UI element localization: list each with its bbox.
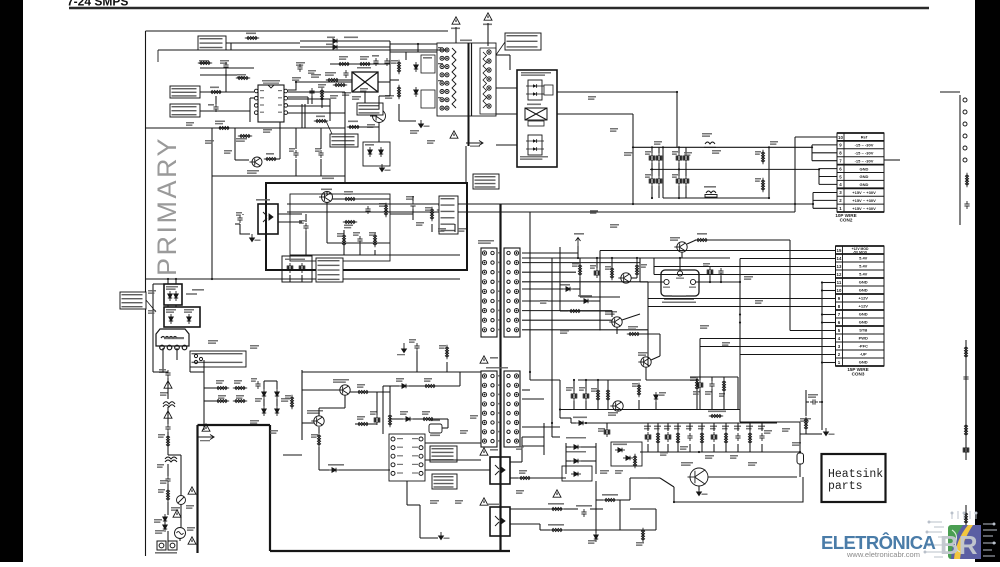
diode inside NA1 <box>368 147 372 157</box>
wire T2 tap <box>522 262 640 264</box>
value label <box>730 455 738 459</box>
wire <box>723 392 725 410</box>
svg-text:-5V MOD: -5V MOD <box>853 251 868 255</box>
wire <box>167 502 169 515</box>
wire <box>376 392 378 415</box>
value label <box>292 77 301 81</box>
diode GFB2 <box>563 287 573 291</box>
T1 secondary winding <box>487 50 491 108</box>
junction <box>211 278 213 280</box>
capacitor CAFB4 <box>357 236 362 244</box>
junction <box>679 257 681 259</box>
option label 9DCP-004053 <box>432 474 457 489</box>
chassis label <box>470 146 480 147</box>
CA5A0A label <box>800 418 811 422</box>
IC ICA1 left pins <box>254 89 258 114</box>
junction <box>662 146 664 148</box>
wire <box>653 258 655 275</box>
capacitor C5363 <box>810 399 818 404</box>
resistor SF20 <box>215 399 229 402</box>
wire <box>559 380 561 418</box>
wire <box>571 422 576 424</box>
wire <box>539 524 541 530</box>
wire long vertical B <box>551 258 553 437</box>
capacitor 16V 470UF <box>697 380 703 390</box>
wire <box>677 444 679 452</box>
T2 upper right pins <box>514 251 518 332</box>
wire to CON3 pin12 <box>654 274 836 276</box>
warning triangle <box>484 13 492 20</box>
inner box GAFB1 <box>290 194 390 261</box>
wire <box>326 202 328 243</box>
L5A301 label <box>708 411 726 413</box>
capacitor C1M5 470UF <box>604 427 610 437</box>
wire output lower rail <box>640 451 800 453</box>
diode DB1d <box>275 406 279 416</box>
wire <box>288 98 330 100</box>
value label <box>199 60 209 64</box>
wire <box>699 377 701 380</box>
bridge diode <box>168 291 172 301</box>
resistor RAC98 <box>437 208 451 211</box>
wire <box>235 223 240 225</box>
wire <box>573 288 580 290</box>
wire <box>300 46 390 48</box>
wire <box>320 128 322 149</box>
transistor QA1 label <box>367 124 375 128</box>
resistor R5C2 <box>722 379 725 393</box>
UF4007 label <box>396 378 404 382</box>
value label <box>660 452 668 456</box>
junction <box>175 278 177 280</box>
RFB5A01 label <box>548 503 564 505</box>
bridge diode <box>174 291 178 301</box>
transformer T1 outline <box>437 43 496 116</box>
wire <box>242 214 244 215</box>
wire <box>653 267 655 275</box>
wire <box>582 310 612 312</box>
wire <box>685 147 687 153</box>
resistor RA12 <box>358 62 372 65</box>
wire <box>200 110 250 112</box>
svg-text:PWD: PWD <box>859 336 868 341</box>
T2 lower left pins <box>482 374 486 443</box>
svg-text:-UP: -UP <box>860 352 867 357</box>
value label <box>186 122 194 126</box>
value label <box>654 141 662 145</box>
wire <box>739 354 741 356</box>
wire <box>343 245 345 255</box>
wire <box>678 169 680 176</box>
wire <box>581 460 596 462</box>
wire <box>301 104 303 128</box>
wire <box>651 169 653 176</box>
AC source SA1 <box>175 528 186 539</box>
wire <box>318 447 320 470</box>
T2 label <box>490 357 498 359</box>
wire <box>965 505 967 530</box>
option label 0452-001R60 <box>120 292 146 309</box>
diode tab <box>544 85 553 95</box>
wire <box>677 423 679 431</box>
value label <box>220 60 229 64</box>
wire <box>696 378 698 380</box>
wire lower rail <box>560 409 740 411</box>
wire <box>713 423 715 431</box>
wire to CON2 pin7 <box>812 160 837 162</box>
wire <box>749 444 751 452</box>
regulator pin OUT <box>690 279 695 284</box>
output filter resistor <box>748 431 751 445</box>
svg-text:11: 11 <box>837 280 842 285</box>
title underline <box>69 7 929 9</box>
transistor QA2 label <box>247 170 259 174</box>
wire <box>531 477 566 479</box>
wire rail B <box>650 168 769 170</box>
value label <box>311 74 321 78</box>
wire <box>162 348 164 372</box>
inductor LM2 <box>704 142 716 147</box>
connector CON2 10P <box>837 133 884 212</box>
wire <box>595 481 597 533</box>
svg-text:PRIMARY: PRIMARY <box>152 136 182 276</box>
wire rail C <box>663 197 769 199</box>
svg-text:GND: GND <box>860 174 869 179</box>
option label ICE3BR4765J 6808-005214 <box>430 446 457 462</box>
wire vertical x663 <box>662 147 664 198</box>
wire <box>711 377 713 381</box>
wire <box>819 401 822 403</box>
wire <box>465 176 467 183</box>
output filter resistor <box>724 431 727 445</box>
ground GND2 <box>697 488 702 496</box>
DAB labels <box>154 519 162 523</box>
resistor GM5 <box>317 433 320 447</box>
ground label <box>829 434 835 435</box>
wire <box>689 444 691 452</box>
wire to CON3 pin9 <box>648 298 836 300</box>
wire <box>359 244 361 255</box>
wire <box>378 81 390 83</box>
output filter capacitor <box>759 433 764 441</box>
optocoupler PC1 box <box>258 204 278 234</box>
wire stub con2 <box>884 159 900 161</box>
wire to CON3 pin13 <box>654 266 836 268</box>
wire <box>234 128 236 160</box>
RAB2 label <box>158 489 165 493</box>
line filter LF1 <box>156 329 189 350</box>
wire <box>226 43 231 50</box>
chassis label <box>200 440 210 441</box>
wire <box>332 198 344 200</box>
wire drain1 out B <box>557 113 633 115</box>
svg-text:-PFC: -PFC <box>859 344 868 349</box>
right edge pins <box>963 98 967 162</box>
CA1 sym <box>169 314 173 324</box>
diode DA1B <box>414 87 418 97</box>
cap label <box>693 391 700 395</box>
resistor RM10 <box>388 413 391 427</box>
inductor LM2 label <box>702 133 712 137</box>
T1 left lead marks <box>438 47 443 98</box>
wire <box>689 423 691 431</box>
capacitor C.04UF <box>709 381 714 389</box>
resistor R3M5 <box>568 309 582 312</box>
wire <box>442 427 448 429</box>
svg-text:parts: parts <box>828 480 863 493</box>
svg-text:GND: GND <box>859 312 868 317</box>
wire cluster top rail <box>690 376 738 378</box>
wire <box>696 281 740 283</box>
wire <box>522 426 560 428</box>
resistor RM9 <box>356 422 370 425</box>
CM6 label <box>370 411 377 415</box>
wire jog 6-4 <box>818 169 820 185</box>
wire <box>152 284 154 330</box>
wire <box>496 87 517 89</box>
wire <box>806 433 822 435</box>
regulator pin GND <box>677 271 682 276</box>
wire <box>276 399 278 406</box>
output filter resistor <box>676 431 679 445</box>
T2 upper left winding box <box>481 248 497 337</box>
QM4 label <box>670 237 680 241</box>
wire <box>167 407 169 424</box>
junction <box>573 379 575 381</box>
junction <box>167 278 169 280</box>
wire <box>350 391 357 393</box>
wire <box>204 387 216 389</box>
value label <box>770 141 778 145</box>
wire <box>636 258 638 264</box>
warning triangle <box>480 448 488 455</box>
IM1 pin name <box>412 464 418 465</box>
wire <box>590 508 603 510</box>
wire <box>356 198 390 200</box>
transistor QM5 <box>618 273 631 283</box>
DB1 label2 <box>281 398 290 402</box>
wire <box>725 423 727 431</box>
capacitor CAFB3 <box>303 223 308 231</box>
T2 upper left inner pins <box>491 251 494 331</box>
wire CON3 ground bus <box>821 283 823 431</box>
IC IM1 left pins <box>391 437 395 475</box>
option box label <box>285 259 305 261</box>
Q5A01 label <box>681 462 693 466</box>
long bus wire 2 <box>287 211 795 213</box>
resistor RX503 <box>627 332 641 335</box>
wire <box>382 386 384 434</box>
optocoupler PC2 internals <box>495 465 505 475</box>
wire <box>302 422 314 424</box>
wire <box>152 330 154 372</box>
wire <box>658 163 660 169</box>
wire <box>345 69 347 71</box>
boundary thick line vertical <box>196 425 198 553</box>
LM1 value 850FM <box>430 435 440 437</box>
wire <box>369 423 377 425</box>
SF18 label <box>216 380 224 384</box>
capacitor CA12 <box>373 58 378 66</box>
wire <box>487 23 489 46</box>
resistor DA5 REPD5-30 <box>326 78 340 81</box>
SF19 label <box>234 380 242 384</box>
wire <box>416 351 418 372</box>
wire <box>560 300 581 302</box>
capacitor CA9 <box>293 150 298 158</box>
wire to CON2 pin1 <box>813 207 837 209</box>
DRAIN1 label <box>521 72 551 76</box>
RX503 label <box>628 326 638 330</box>
wire vertical x769 <box>768 147 770 198</box>
GND pin label <box>676 278 684 279</box>
RFB5A03 label <box>602 494 618 496</box>
wire <box>737 444 739 452</box>
value label <box>416 222 424 226</box>
line filter label NOISE COXXX <box>164 337 184 339</box>
svg-text:5.4V: 5.4V <box>859 264 868 269</box>
wire <box>180 455 182 495</box>
wire IC to HA1 <box>288 82 352 90</box>
wire <box>713 444 715 452</box>
option label box 9005-000454 0.22 OR6 <box>316 258 343 282</box>
wire <box>560 310 568 312</box>
CAFB3 label <box>299 220 305 224</box>
DRM3M01 label <box>578 295 592 297</box>
transistor QA2 DC306ST-L <box>250 157 263 167</box>
wire <box>295 159 297 176</box>
wire <box>708 476 797 478</box>
wire loop <box>674 477 803 502</box>
wire <box>573 380 575 391</box>
CAB1 label <box>159 369 166 373</box>
transistor Q5A01 D882 <box>688 468 709 486</box>
wire vertical x795 <box>794 137 796 212</box>
wire <box>749 423 751 431</box>
capacitor CM8 <box>594 268 600 278</box>
diode DB1b <box>275 389 279 399</box>
wire <box>379 95 390 97</box>
wire <box>301 370 303 440</box>
junction <box>632 146 634 148</box>
RM9 label <box>357 416 365 420</box>
wire to CON3 pin10 <box>822 290 836 292</box>
warning triangle <box>202 424 210 431</box>
svg-text:BR: BR <box>940 530 978 560</box>
junction on CON3 bus <box>821 321 823 323</box>
resistor RAFB5 <box>430 207 433 221</box>
value label <box>352 96 361 100</box>
wire <box>390 213 413 215</box>
option cap box <box>282 256 312 282</box>
resistor RA10 <box>347 125 361 128</box>
T2 lower right inner pins <box>507 374 510 443</box>
wire to CON2 pin5 <box>819 176 837 178</box>
logo circuit traces <box>924 511 997 557</box>
wire <box>235 159 249 161</box>
wire <box>390 385 399 387</box>
wire <box>599 251 601 331</box>
value label <box>430 500 439 504</box>
IC ICA1 part label <box>263 83 279 84</box>
capacitor CA9 label <box>289 148 295 152</box>
svg-text:GND: GND <box>859 288 868 293</box>
junction on CON3 bus <box>821 361 823 363</box>
leader line <box>326 121 332 134</box>
resistor RA5 label <box>210 87 219 89</box>
T2 lower left winding box <box>481 371 497 447</box>
capacitor CAB2 <box>165 424 170 432</box>
resistor SF18 <box>215 386 229 389</box>
wire <box>679 258 681 271</box>
wire <box>176 348 178 360</box>
value label <box>684 152 692 156</box>
resistor RA15 <box>320 88 323 102</box>
transistor GM1 MMBT2907A <box>311 416 324 426</box>
wire <box>369 391 390 393</box>
electrolytic cap lower <box>676 176 682 186</box>
resistor DA9 <box>238 134 252 137</box>
resistor RAC98 label <box>438 204 449 206</box>
diode DFB5A01 <box>594 532 598 542</box>
warning label <box>483 24 492 26</box>
wire <box>339 79 352 81</box>
IC ICA1 notch <box>268 85 274 88</box>
capacitor CA5 <box>213 104 218 112</box>
primary box left border <box>145 31 147 556</box>
resistor right edge <box>965 173 968 187</box>
wire <box>168 454 181 456</box>
CFB5A01 label <box>576 505 592 507</box>
capacitor CM7 <box>414 343 419 351</box>
inductor LAB1 <box>163 402 175 407</box>
CR1 label <box>641 264 647 268</box>
IM1 pin name <box>412 455 418 456</box>
output comp label <box>734 426 741 430</box>
right black sidebar <box>975 0 1000 562</box>
junction <box>577 257 579 259</box>
wire <box>709 276 711 282</box>
wire <box>579 258 581 265</box>
wire to CON2 pin8 <box>812 152 837 154</box>
value label <box>600 470 609 474</box>
IC IM1 body <box>389 434 425 481</box>
wire <box>687 240 696 244</box>
electrolytic cap lower <box>649 176 655 186</box>
wire <box>606 423 608 428</box>
capacitor CM9 <box>707 267 713 277</box>
IC ICA1 right pins <box>284 89 288 114</box>
wire <box>301 370 303 440</box>
wire <box>611 258 613 268</box>
transistor DB3601 <box>609 317 622 327</box>
wire <box>419 505 421 538</box>
resistor RAFB2 <box>342 233 345 247</box>
primary box top border <box>146 30 449 32</box>
wire <box>647 444 649 452</box>
junction <box>295 81 297 83</box>
value label <box>224 150 232 154</box>
label box right of GAFB1 <box>439 196 458 234</box>
svg-text:13: 13 <box>837 264 842 269</box>
wire <box>295 128 297 149</box>
wire <box>278 221 302 223</box>
wire <box>425 469 490 471</box>
capacitor in option box <box>287 263 293 273</box>
wire long vertical C <box>559 247 561 311</box>
SB5H100-T label <box>566 437 586 439</box>
transistor QA1 SPA11AN80C3 <box>370 110 386 123</box>
